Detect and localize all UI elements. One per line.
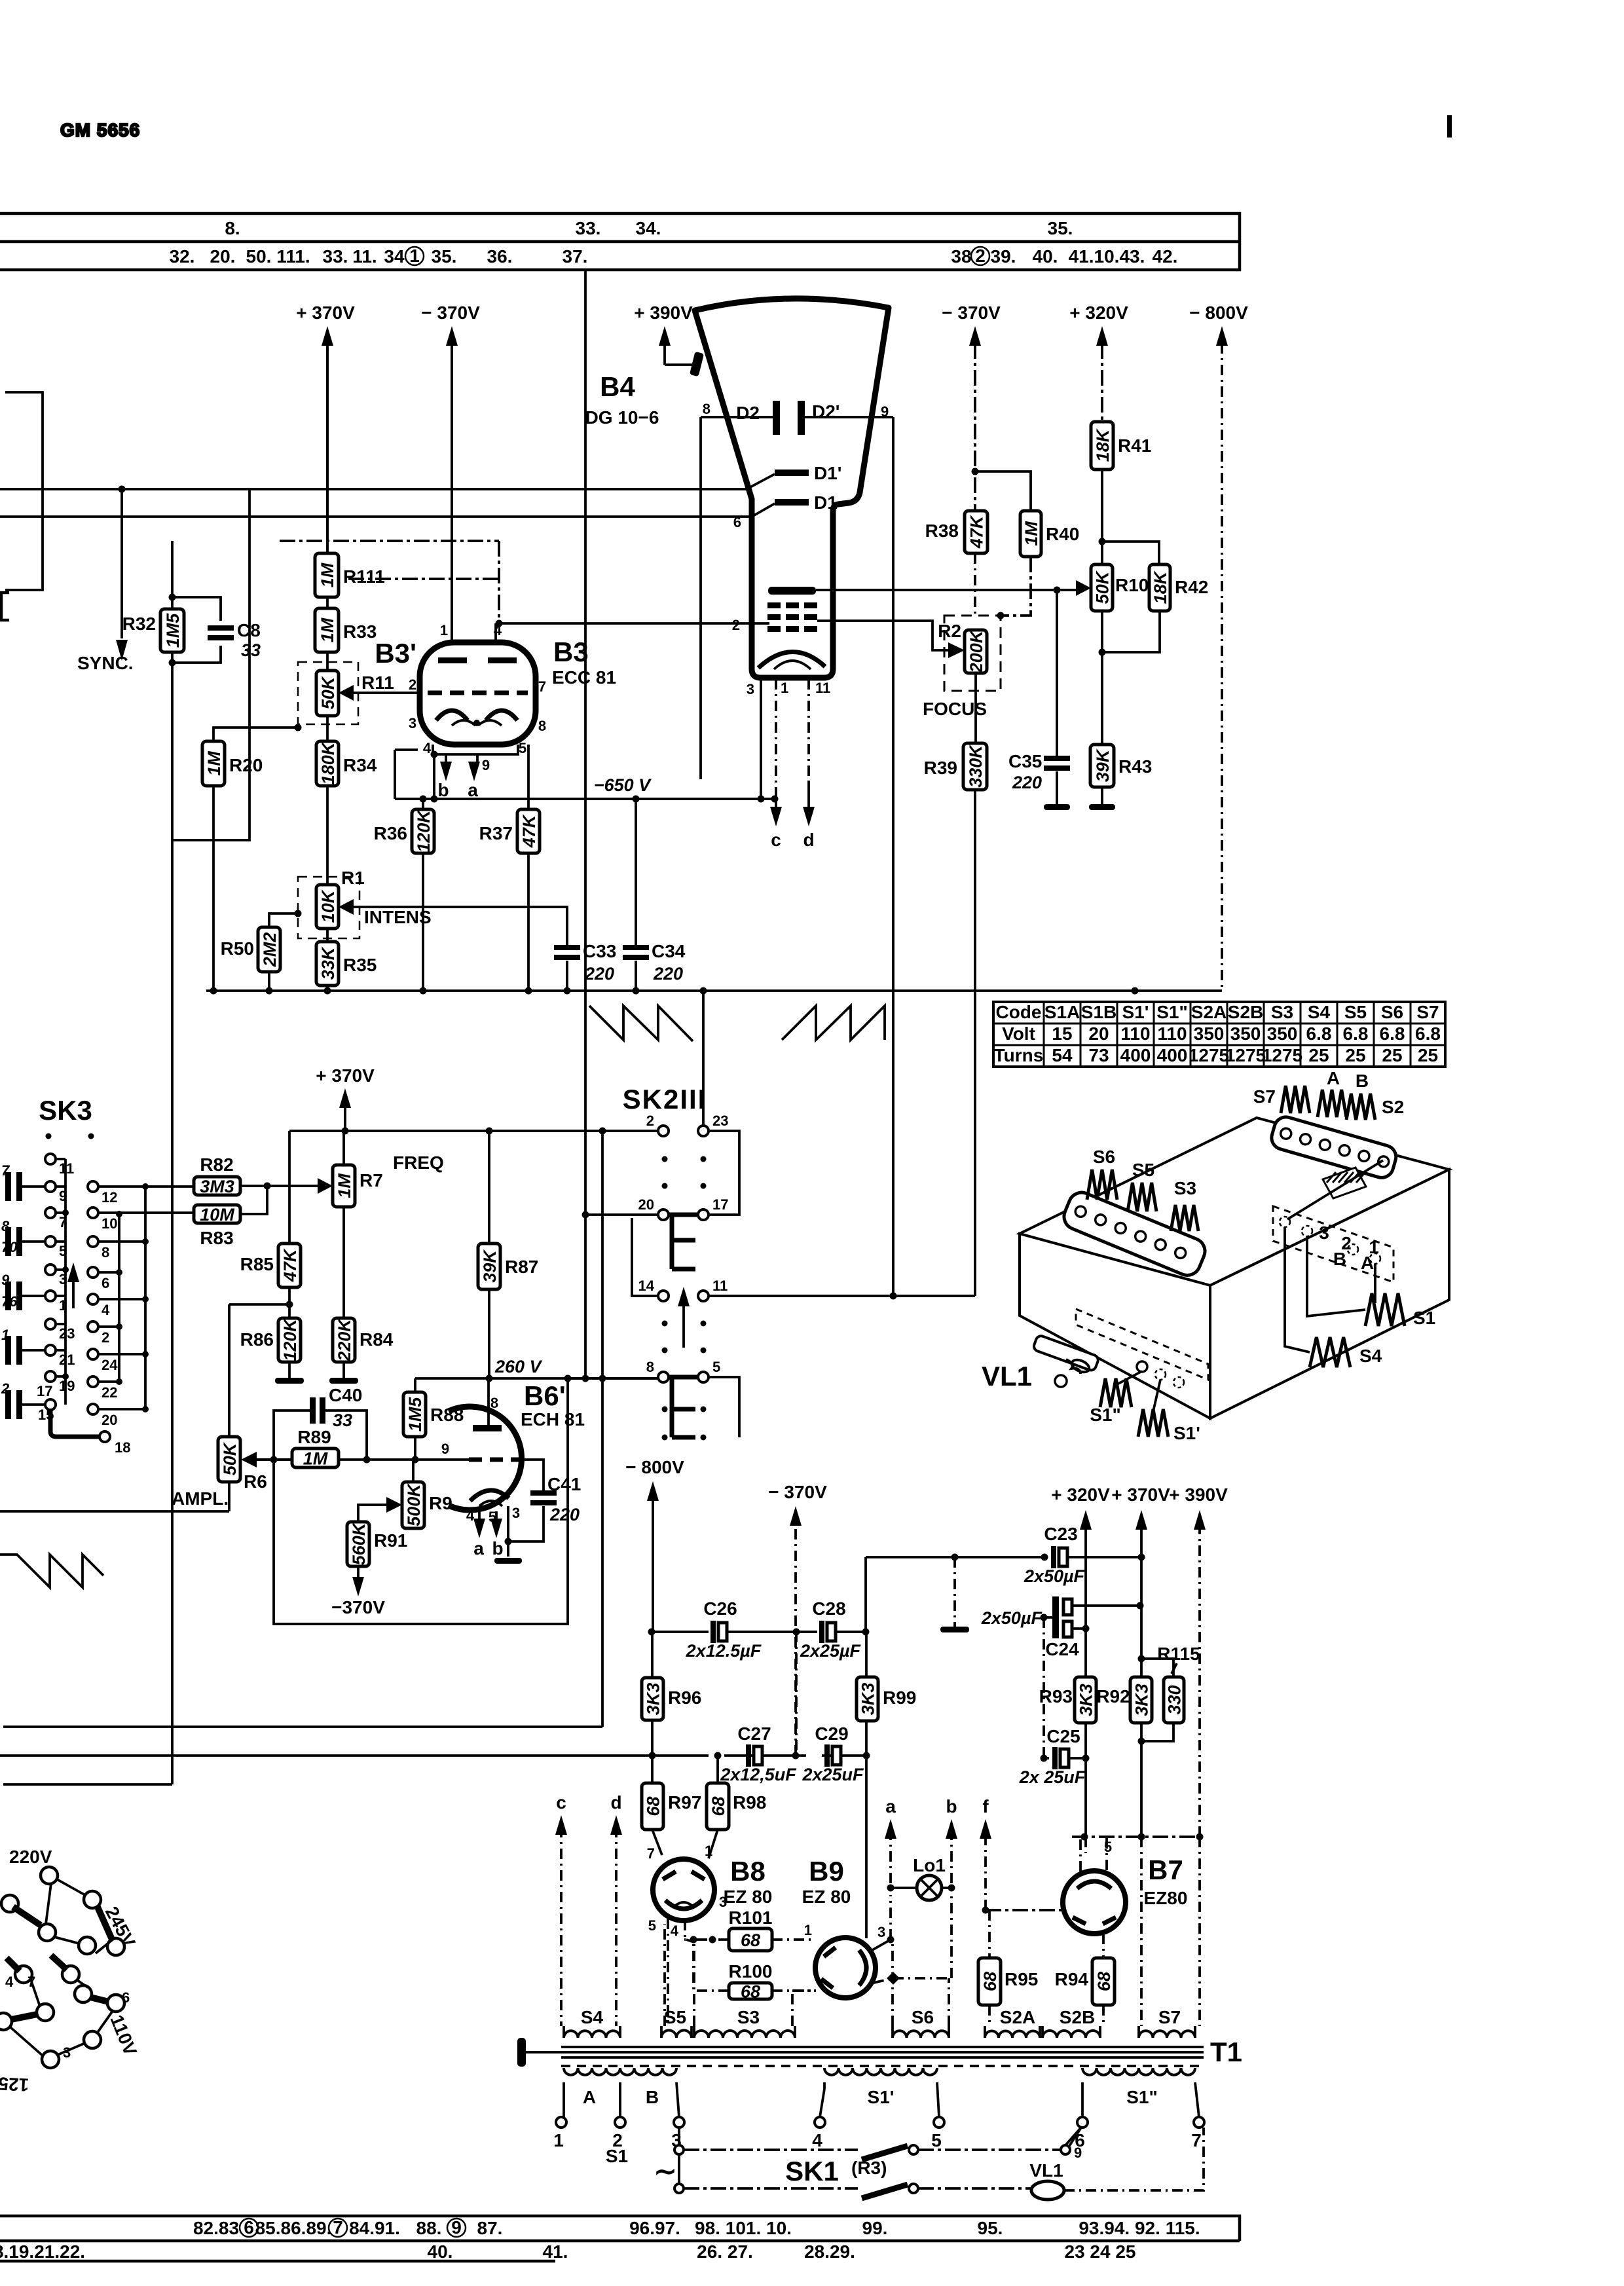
wire R32 bottom lead: [3, 652, 172, 1784]
svg-text:1: 1: [781, 680, 788, 696]
junction R50 node: [295, 910, 302, 917]
svg-text:1M: 1M: [318, 562, 337, 587]
wire R9 top: [412, 1460, 415, 1482]
svg-text:3: 3: [63, 2044, 71, 2061]
svg-text:R33: R33: [343, 621, 377, 642]
svg-text:220K: 220K: [335, 1318, 354, 1362]
resistor R83: [194, 1205, 240, 1248]
SK2 rotor arrow: [678, 1287, 690, 1348]
junction anode wire node: [1054, 587, 1061, 594]
svg-text:S3: S3: [1174, 1178, 1196, 1198]
wire CRT box left: [699, 417, 702, 779]
svg-text:S4: S4: [1308, 1002, 1331, 1022]
wire -650V wire: [395, 798, 775, 800]
wire R6 top: [228, 1304, 231, 1437]
svg-text:S2B: S2B: [1228, 1002, 1263, 1022]
svg-text:B9: B9: [809, 1856, 844, 1887]
wire B9 pin2 wire: [874, 1895, 951, 1983]
wire C23 to +370: [1067, 1556, 1141, 1558]
junction B7 top dots: [1081, 1834, 1204, 1841]
wire C8 leads: [172, 597, 221, 663]
transformer 3D front face: [1020, 1234, 1210, 1418]
svg-text:1: 1: [440, 622, 448, 638]
svg-text:8: 8: [101, 1244, 109, 1261]
svg-text:2x 25uF: 2x 25uF: [1019, 1767, 1086, 1787]
resistor R96: [642, 1678, 701, 1720]
svg-text:D1: D1: [814, 492, 838, 513]
ground R43 ground: [1089, 804, 1115, 810]
svg-text:S5: S5: [1132, 1160, 1154, 1180]
resistor R50: [221, 927, 280, 972]
svg-text:R1: R1: [341, 868, 365, 888]
svg-text:R7: R7: [360, 1170, 383, 1190]
svg-text:2x12.5µF: 2x12.5µF: [686, 1641, 762, 1661]
svg-text:C35: C35: [1008, 751, 1042, 771]
power arrow -800V mid: [625, 1457, 684, 1632]
3d wire to S4: [1285, 1227, 1310, 1352]
wire rail x894: [584, 270, 587, 1378]
svg-text:A: A: [583, 2087, 596, 2107]
svg-text:ECH 81: ECH 81: [521, 1409, 585, 1429]
svg-text:11.: 11.: [352, 246, 377, 267]
svg-text:73: 73: [1088, 1045, 1109, 1065]
power arrow -370V right top: [942, 303, 1001, 347]
svg-text:120K: 120K: [414, 809, 434, 853]
capacitor C33: [554, 941, 616, 984]
svg-text:C8: C8: [237, 620, 261, 640]
winding S1pp: [1082, 2068, 1195, 2075]
svg-text:FREQ: FREQ: [393, 1152, 444, 1173]
svg-text:S7: S7: [1158, 2007, 1181, 2027]
svg-text:41.10.43.: 41.10.43.: [1069, 246, 1145, 267]
svg-text:R86: R86: [240, 1329, 274, 1350]
svg-text:8: 8: [538, 718, 546, 734]
svg-text:C34: C34: [652, 941, 686, 961]
svg-text:FOCUS: FOCUS: [923, 699, 987, 719]
arrow B3 heater b: [437, 754, 452, 800]
svg-text:5: 5: [1104, 1839, 1112, 1855]
svg-text:99.: 99.: [862, 2218, 888, 2238]
svg-text:A: A: [1327, 1068, 1340, 1088]
svg-text:R35: R35: [343, 955, 377, 975]
resistor R39: [924, 743, 987, 790]
svg-text:1275: 1275: [1189, 1045, 1229, 1065]
svg-text:111.: 111.: [276, 246, 310, 267]
svg-text:40.: 40.: [1033, 246, 1058, 267]
svg-text:1: 1: [553, 2130, 564, 2150]
svg-text:68: 68: [1094, 1972, 1114, 1991]
transformer winding table: [993, 1002, 1445, 1067]
svg-text:R115: R115: [1157, 1644, 1200, 1664]
junction R2 box node: [997, 612, 1005, 619]
svg-text:B3': B3': [375, 638, 416, 669]
svg-text:R98: R98: [733, 1792, 766, 1813]
chassis ground T1: [517, 2038, 561, 2067]
svg-text:R32: R32: [122, 614, 156, 634]
svg-text:26. 27.: 26. 27.: [697, 2241, 753, 2262]
switch SK1 row1: [674, 2128, 1081, 2160]
svg-text:R10: R10: [1115, 575, 1149, 595]
power arrow +320V right top: [1069, 303, 1128, 347]
svg-text:20.: 20.: [210, 246, 236, 267]
wire feedback loop: [274, 1378, 568, 1624]
wire riser x1322: [864, 1557, 867, 1632]
svg-text:23 24 25: 23 24 25: [1065, 2241, 1136, 2262]
svg-text:S2A: S2A: [1000, 2007, 1035, 2027]
tube B8 EZ80: [653, 1859, 714, 1921]
winding lead S3 spring: [1171, 1205, 1198, 1231]
svg-text:1M5: 1M5: [405, 1397, 425, 1432]
svg-text:24: 24: [101, 1357, 118, 1373]
resistor R100: [729, 1961, 773, 2002]
svg-text:R43: R43: [1118, 756, 1152, 777]
svg-text:42.: 42.: [1153, 246, 1178, 267]
resistor R86: [240, 1318, 301, 1362]
CRT D2 plates: [773, 401, 805, 435]
svg-text:EZ 80: EZ 80: [802, 1887, 851, 1907]
svg-text:4: 4: [5, 1974, 14, 1990]
wire SK2 5 wire: [709, 1377, 739, 1437]
svg-text:R99: R99: [883, 1687, 916, 1708]
svg-text:8.19.21.22.: 8.19.21.22.: [0, 2241, 85, 2262]
SK3 15-18 link: [50, 1410, 100, 1437]
wire +390V to CRT: [665, 363, 696, 366]
svg-text:68: 68: [980, 1972, 1000, 1991]
capacitor C29: [802, 1724, 864, 1784]
svg-text:SYNC.: SYNC.: [77, 653, 134, 673]
svg-text:260 V: 260 V: [494, 1357, 543, 1376]
svg-text:11: 11: [712, 1278, 728, 1294]
resistor R38: [925, 511, 987, 553]
resistor R35: [316, 942, 377, 986]
wire B9 pin3 wire: [872, 1940, 891, 1950]
winding S5: [661, 2031, 692, 2038]
svg-text:10: 10: [101, 1215, 117, 1232]
svg-text:S1": S1": [1156, 1002, 1188, 1022]
svg-text:4: 4: [423, 740, 432, 756]
wire pin23 riser: [702, 991, 705, 1126]
svg-text:6: 6: [101, 1275, 109, 1291]
svg-text:S6: S6: [912, 2007, 934, 2027]
svg-text:2x25µF: 2x25µF: [800, 1641, 862, 1661]
svg-text:S1B: S1B: [1081, 1002, 1116, 1022]
svg-text:B: B: [1333, 1249, 1346, 1269]
sawtooth waveform bottom-left: [0, 1555, 103, 1587]
svg-text:47K: 47K: [280, 1247, 300, 1282]
junction x920 joins: [599, 1128, 606, 1382]
wire cap leads to SK3: [22, 1187, 45, 1405]
svg-text:95.: 95.: [978, 2218, 1003, 2238]
wire R85 R86 link: [229, 1287, 289, 1437]
resistor R37: [479, 809, 540, 853]
transformer 3D back bracket: [1269, 1115, 1399, 1181]
junction R20 node: [295, 724, 302, 731]
resistor R41: [1091, 422, 1151, 470]
svg-text:B6': B6': [524, 1380, 566, 1411]
resistor R9: [402, 1482, 452, 1528]
wire VL1 to T7: [1064, 2128, 1204, 2190]
power arrow +370V top: [296, 303, 355, 553]
wire R32 top lead: [171, 541, 174, 609]
resistor R36: [374, 809, 434, 853]
winding S2B: [1043, 2031, 1100, 2038]
winding lead S4 spring: [1310, 1337, 1350, 1367]
svg-text:R93: R93: [1039, 1686, 1073, 1706]
svg-text:21: 21: [59, 1352, 75, 1368]
svg-text:SK2III: SK2III: [623, 1084, 707, 1115]
resistor R95: [978, 1958, 1038, 2005]
svg-text:93.94. 92. 115.: 93.94. 92. 115.: [1079, 2218, 1200, 2238]
svg-text:S1': S1': [1122, 1002, 1149, 1022]
wire bottom rail box: [0, 2216, 1240, 2261]
svg-text:b: b: [437, 780, 449, 800]
svg-text:Code: Code: [996, 1002, 1042, 1022]
svg-text:47K: 47K: [967, 514, 987, 549]
wire R2 to R39: [974, 673, 977, 743]
SK2 shorting bar lower: [669, 1377, 698, 1437]
svg-text:35.: 35.: [432, 246, 457, 267]
resistor R32: [122, 609, 184, 652]
junction C24 dots: [1041, 1602, 1144, 1632]
svg-text:14: 14: [638, 1278, 655, 1294]
svg-text:400: 400: [1120, 1045, 1151, 1065]
svg-text:C40: C40: [329, 1385, 362, 1405]
wire SK3 right bus1: [98, 1187, 194, 1409]
svg-text:−370V: −370V: [331, 1597, 385, 1617]
svg-text:B3: B3: [553, 636, 589, 667]
svg-text:3K3: 3K3: [858, 1683, 878, 1716]
svg-text:6.8: 6.8: [1415, 1023, 1441, 1044]
svg-text:110: 110: [1120, 1023, 1150, 1044]
wire CRT anode wire to R10: [816, 589, 1079, 591]
svg-text:180K: 180K: [318, 741, 338, 784]
wire R94 leads: [1102, 1934, 1105, 2026]
svg-text:3: 3: [877, 1924, 885, 1940]
svg-text:8: 8: [1, 1218, 10, 1234]
resistor R97: [642, 1783, 701, 1830]
svg-text:R111: R111: [343, 566, 385, 587]
capacitor C23: [1024, 1524, 1086, 1586]
svg-text:9: 9: [451, 2217, 462, 2238]
svg-text:a: a: [468, 780, 478, 800]
svg-text:220: 220: [1012, 773, 1042, 792]
svg-text:∼: ∼: [654, 2156, 676, 2186]
junction R10 bottom node: [1099, 649, 1106, 656]
svg-text:a: a: [473, 1538, 484, 1558]
svg-text:R94: R94: [1055, 1969, 1089, 1989]
wire T3 to SK1: [678, 2128, 680, 2184]
svg-text:2M2: 2M2: [260, 932, 280, 968]
junction low wire dots: [649, 1752, 870, 1760]
svg-text:88.: 88.: [416, 2218, 442, 2238]
wire +320 to B7: [1084, 1837, 1087, 1853]
CRT D1 prime plate: [775, 470, 809, 476]
svg-text:R84: R84: [360, 1329, 394, 1350]
power arrow -370V mid: [768, 1482, 827, 1756]
svg-text:D2': D2': [812, 401, 840, 422]
wire T1 core lines: [561, 2047, 1204, 2057]
junction SK3 marks: [46, 1134, 94, 1139]
winding lead B spring: [1346, 1094, 1375, 1120]
power arrow a arrow: [885, 1796, 896, 1883]
transformer 3D top face: [1020, 1118, 1449, 1285]
circled 9: [447, 2217, 466, 2238]
svg-text:1: 1: [1, 1327, 9, 1343]
ground R84 ground: [329, 1378, 358, 1384]
svg-text:350: 350: [1230, 1023, 1261, 1044]
svg-text:B: B: [1356, 1071, 1369, 1091]
junction SK3 left bus dots: [62, 1209, 69, 1380]
wire d shaft: [615, 1827, 618, 2026]
wire S6 leads up: [893, 1940, 949, 2026]
tube B7 EZ80: [1063, 1871, 1126, 1934]
svg-text:125V: 125V: [0, 2073, 29, 2095]
wire R20 top lead: [213, 728, 298, 741]
svg-text:1M: 1M: [204, 751, 224, 776]
wire C24-C25 dash link: [1043, 1617, 1045, 1758]
wire C40 leads: [274, 1410, 367, 1460]
wire R86 gnd lead: [288, 1362, 291, 1378]
junction R82 node: [264, 1183, 271, 1190]
CRT anode connector blob: [690, 352, 704, 377]
R6 wiper arrow: [241, 1452, 257, 1467]
SK3 rotor arrow: [67, 1263, 79, 1308]
R115 pointer: [1172, 1663, 1177, 1674]
svg-text:2: 2: [646, 1113, 654, 1129]
wire INTENS wiper wire: [354, 907, 567, 948]
wire D2 left wire: [701, 416, 773, 418]
junction Lo1 dots: [887, 1885, 955, 1892]
svg-text:2x12,5uF: 2x12,5uF: [720, 1765, 797, 1784]
wire SK2 11 wire: [709, 1295, 975, 1297]
wire 260V to SK2-8: [568, 1377, 658, 1380]
junction 260V dots: [486, 1375, 572, 1382]
wire R82 right lead: [240, 1186, 320, 1214]
winding lead A spring: [1318, 1090, 1346, 1117]
wire B3 pin4 to CRT pin2: [496, 622, 769, 625]
rotary selector blades: [7, 1906, 113, 2019]
wire R36 leads: [422, 799, 424, 991]
wire S winding stubs: [564, 2026, 1195, 2038]
svg-text:C28: C28: [812, 1598, 845, 1619]
capacitor C28: [800, 1598, 862, 1661]
svg-text:6: 6: [733, 514, 741, 530]
wire R88 leads: [414, 1378, 416, 1460]
svg-text:S5: S5: [664, 2007, 686, 2027]
junction C23 right dot: [1138, 1554, 1145, 1561]
svg-text:1275: 1275: [1225, 1045, 1266, 1065]
svg-text:4: 4: [671, 1923, 679, 1939]
resistor R92: [1130, 1677, 1152, 1723]
junction f node: [982, 1907, 989, 1914]
wire D2 right wire: [805, 416, 893, 418]
wire B3 pin4 lead: [494, 623, 497, 642]
svg-text:Lo1: Lo1: [913, 1855, 946, 1875]
3d links S1pp: [1116, 1371, 1160, 1414]
resistor R85: [240, 1244, 301, 1287]
resistor R111: [315, 553, 385, 597]
junction -650V junctions: [420, 796, 779, 803]
potentiometer R1 dashed box: [298, 877, 360, 938]
svg-text:AMPL.: AMPL.: [172, 1488, 229, 1509]
svg-text:2: 2: [1, 1380, 10, 1397]
svg-text:C41: C41: [547, 1474, 581, 1494]
capacitor C35: [1008, 751, 1070, 792]
circled 6: [240, 2217, 258, 2238]
svg-text:R9: R9: [429, 1493, 452, 1513]
B9 pin2 diamond: [887, 1972, 900, 1985]
svg-text:8.: 8.: [225, 218, 240, 238]
resistor R40: [1020, 511, 1079, 557]
svg-text:D1': D1': [814, 463, 841, 483]
svg-text:330K: 330K: [966, 744, 986, 788]
capacitor C40: [310, 1385, 362, 1430]
svg-text:R6: R6: [244, 1471, 267, 1492]
svg-text:EZ80: EZ80: [1144, 1888, 1188, 1908]
svg-text:S4: S4: [581, 2007, 604, 2027]
junction C26 wire dots: [648, 1629, 870, 1636]
svg-text:f: f: [982, 1796, 989, 1816]
R2 wiper arrow: [948, 642, 965, 658]
power arrow b arrow: [946, 1796, 957, 1883]
wire vertical x381: [172, 489, 249, 840]
svg-text:10M: 10M: [200, 1205, 234, 1225]
svg-text:500K: 500K: [404, 1483, 424, 1526]
svg-text:c: c: [771, 830, 781, 850]
svg-text:3: 3: [512, 1505, 520, 1521]
capacitor C41: [530, 1474, 581, 1524]
svg-text:2: 2: [101, 1329, 109, 1346]
CRT B4 outline: [695, 299, 889, 678]
svg-text:34: 34: [384, 246, 405, 267]
svg-text:R11: R11: [361, 673, 394, 693]
svg-text:b: b: [492, 1538, 503, 1558]
wire C24 leads: [1044, 1606, 1140, 1629]
svg-text:25: 25: [1418, 1045, 1438, 1065]
svg-text:R101: R101: [729, 1908, 773, 1928]
svg-text:S6: S6: [1381, 1002, 1403, 1022]
wire CRT pin3 lead: [760, 679, 762, 799]
svg-text:C29: C29: [815, 1724, 848, 1744]
svg-text:33: 33: [241, 640, 261, 660]
svg-text:R92: R92: [1096, 1686, 1130, 1706]
winding S7: [1139, 2031, 1195, 2038]
wire R37 leads: [527, 745, 530, 991]
svg-text:19: 19: [59, 1378, 75, 1394]
rail circled 1: [405, 246, 424, 266]
svg-text:350: 350: [1194, 1023, 1225, 1044]
svg-text:39.: 39.: [991, 246, 1016, 267]
svg-text:7: 7: [647, 1845, 655, 1862]
svg-text:C33: C33: [583, 941, 616, 961]
wire a line: [889, 1895, 892, 1940]
wire R42 top loop: [1102, 542, 1159, 564]
svg-text:R50: R50: [221, 938, 254, 959]
tube B3 ECC81: [420, 642, 536, 745]
junction R115 dots: [1138, 1655, 1145, 1745]
svg-text:110: 110: [1157, 1023, 1187, 1044]
rail circled 2: [971, 246, 989, 266]
svg-text:S1A: S1A: [1044, 1002, 1080, 1022]
svg-text:S1': S1': [1173, 1423, 1200, 1443]
svg-text:S1: S1: [606, 2146, 628, 2166]
svg-text:R39: R39: [924, 758, 957, 778]
svg-text:17: 17: [712, 1196, 728, 1213]
svg-text:50K: 50K: [318, 675, 338, 709]
svg-text:3: 3: [409, 715, 416, 731]
svg-text:23: 23: [59, 1325, 75, 1342]
CRT cathode arc: [758, 652, 825, 669]
